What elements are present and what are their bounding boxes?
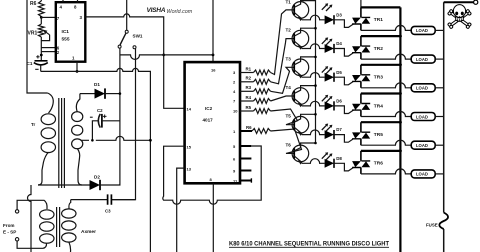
wire TR3 to load (361, 83, 411, 88)
node pin16 corner (212, 54, 215, 57)
svg-text:VR1: VR1 (28, 31, 38, 37)
wire TR2 to load (361, 54, 411, 59)
svg-text:555: 555 (62, 37, 70, 43)
wire R6 to T6 base (271, 129, 302, 153)
wire TR3 rail to bus (361, 64, 401, 66)
wire TR2 rail to bus (361, 35, 401, 37)
wire E-SP top to audio transformer (17, 200, 47, 209)
wire TR4 to load (361, 112, 411, 117)
svg-text:VISHA: VISHA (147, 7, 166, 14)
resistor R4 (254, 99, 271, 104)
mains input terminal (474, 0, 478, 4)
svg-text:TR2: TR2 (374, 46, 383, 52)
audio transformer Axmer core (57, 207, 60, 247)
svg-text:1: 1 (233, 129, 236, 134)
svg-text:LOAD: LOAD (416, 143, 428, 148)
node D1 cathode junction (119, 92, 122, 95)
wire R4 to T4 base (271, 96, 295, 101)
wire centre tap to 0V with hops (81, 136, 151, 140)
node T3 collector junction (314, 56, 317, 59)
svg-text:From: From (3, 223, 14, 228)
IC1 pin 8 stub (77, 0, 79, 2)
SW1 bottom contact (118, 45, 121, 48)
wire D4 to TR2 gate (334, 49, 353, 57)
triac TR6 (360, 151, 362, 174)
node pin1/0V rail (76, 70, 79, 73)
node junction VR1/C1/pins (40, 54, 43, 57)
wire left vertical from top to transformer (27, 0, 48, 93)
resistor R2 (254, 79, 271, 84)
IC2 unused pin stubs (240, 145, 251, 147)
svg-text:TR3: TR3 (374, 75, 383, 81)
collector supply bus (315, 0, 317, 144)
resistor R6 (555 timing) (39, 1, 45, 17)
resistor R3 (254, 89, 271, 94)
transistor T1 (292, 2, 309, 19)
Axmer primary winding (40, 210, 54, 219)
wire C3 to SW1 second contact (112, 49, 136, 200)
svg-text:D3: D3 (336, 12, 342, 17)
svg-text:14: 14 (187, 107, 192, 112)
terminal From E-SP top (15, 210, 18, 213)
svg-text:IC2: IC2 (205, 106, 213, 111)
svg-text:TR4: TR4 (374, 103, 383, 109)
svg-text:4: 4 (233, 89, 236, 94)
wire D7 to TR5 gate (334, 135, 353, 143)
svg-text:LOAD: LOAD (416, 86, 428, 91)
node clock line / SW1 line junction (162, 54, 165, 57)
svg-text:K80 6/10 CHANNEL SEQUENTIAL RU: K80 6/10 CHANNEL SEQUENTIAL RUNNING DISC… (229, 242, 389, 248)
wire IC2 output pin to R3 (240, 90, 254, 92)
triac TR3 (360, 65, 362, 88)
LED D3 (325, 15, 334, 24)
wire load 6 to right bus (435, 173, 444, 175)
node T6 collector junction (314, 142, 317, 145)
SW1 top contact (125, 30, 128, 33)
wire load 5 to right bus (435, 144, 444, 146)
capacitor C3 (71, 199, 136, 201)
svg-text:R6: R6 (246, 125, 252, 130)
wire R3 to T3 base (271, 67, 295, 93)
svg-text:T6: T6 (286, 142, 292, 147)
wire IC2 pin 13 to bottom (177, 168, 185, 252)
wire TR6 rail to bus (361, 150, 401, 152)
node T4 collector junction (314, 84, 317, 87)
svg-text:7: 7 (57, 16, 60, 21)
wire clock select with hop under C3 line (120, 55, 213, 62)
svg-text:13: 13 (187, 166, 192, 171)
VR1 wiper arrow (45, 31, 50, 35)
C2 minus tick (90, 116, 93, 118)
C2 plus sign (103, 115, 107, 119)
transformer Tr core (59, 98, 65, 188)
transistor T5 (292, 116, 309, 133)
VR1 wiper return wire (41, 35, 49, 41)
svg-text:TR1: TR1 (374, 17, 383, 23)
load box 1 (411, 26, 435, 34)
svg-text:TR6: TR6 (374, 161, 383, 167)
load box 5 (411, 141, 435, 149)
wire T5 emitter to LED (302, 130, 325, 135)
svg-text:4: 4 (60, 4, 63, 9)
wire pin2 tie (41, 51, 56, 53)
svg-text:R3: R3 (246, 85, 252, 90)
svg-text:16: 16 (211, 68, 216, 73)
wire T4 emitter to LED (302, 101, 325, 106)
svg-text:D4: D4 (336, 41, 342, 46)
transistor T4 (292, 88, 309, 105)
wire D3 to TR1 gate (334, 20, 353, 28)
LED D8 (325, 159, 334, 168)
wire IC2 output pin to R1 (240, 72, 254, 74)
diode D2 (38, 184, 90, 186)
resistor R5 (254, 109, 271, 114)
wire T1 emitter to LED (302, 15, 325, 20)
svg-text:15: 15 (187, 145, 192, 150)
wire T2 emitter to LED (302, 44, 325, 49)
wire IC2 pin 15 reset path (163, 146, 261, 204)
wire mains-neutral down with hop (28, 185, 31, 252)
svg-text:R1: R1 (246, 66, 252, 71)
load box 3 (411, 84, 435, 92)
wire T3 emitter to LED (302, 73, 325, 78)
LED D4 (325, 44, 334, 53)
svg-text:D7: D7 (336, 127, 342, 132)
resistor R6 (252, 129, 271, 134)
C1 plus sign (36, 55, 39, 58)
node rail 5 / bus junction (399, 121, 402, 124)
LED D3 arrows (322, 5, 331, 12)
svg-text:10: 10 (233, 109, 238, 114)
transistor T6 (292, 145, 309, 162)
svg-text:7: 7 (233, 99, 236, 104)
node rail 3 / bus junction (399, 63, 402, 66)
node C2/centre-tap junction (91, 139, 94, 142)
wire IC2 pin 8 to bottom (212, 183, 214, 252)
LED D7 (325, 130, 334, 139)
wire D5 to TR3 gate (334, 77, 353, 85)
svg-text:D1: D1 (94, 82, 100, 87)
wire IC2 pin16 supply from top (212, 0, 214, 55)
wire TR5 rail to bus (361, 121, 401, 123)
svg-text:E - SP: E - SP (3, 230, 16, 235)
wire R2 to T2 base (271, 39, 295, 84)
Tr primary winding (48, 93, 54, 113)
fuse (439, 213, 448, 230)
wire to mains terminal (444, 1, 474, 3)
Tr secondary winding (76, 94, 80, 112)
wire TR1 rail to bus (361, 6, 401, 8)
triac TR4 (360, 94, 362, 117)
wire load 3 to right bus (435, 87, 444, 89)
wire R5 to T5 base (271, 109, 298, 125)
wire TR5 to load (361, 140, 411, 145)
wire R6 junction to IC1 pin 7 (41, 16, 56, 18)
svg-text:8: 8 (210, 177, 213, 182)
IC2 pin 11 tick (250, 178, 252, 182)
skull and crossbones warning (447, 5, 471, 29)
svg-text:6: 6 (233, 157, 236, 162)
right mains bus with fuse gap (443, 2, 445, 252)
svg-text:T1: T1 (286, 0, 292, 4)
svg-text:8: 8 (74, 4, 77, 9)
svg-text:3: 3 (233, 70, 236, 75)
LED D5 (325, 73, 334, 82)
potentiometer VR1 (39, 24, 45, 37)
svg-text:D5: D5 (336, 70, 342, 75)
svg-text:R4: R4 (246, 95, 252, 100)
wire D6 to TR4 gate (334, 106, 353, 114)
node junction R6/pin7 (40, 16, 43, 19)
wire TR6 to load (361, 169, 411, 174)
svg-text:World.com: World.com (167, 9, 193, 15)
node T2 collector junction (314, 27, 317, 30)
svg-text:9: 9 (233, 169, 236, 174)
svg-text:T2: T2 (286, 28, 292, 33)
terminal From E-SP bottom (15, 238, 18, 241)
svg-text:IC1: IC1 (62, 29, 70, 35)
wire load 4 to right bus (435, 116, 444, 118)
C1 minus sign (35, 68, 38, 70)
svg-text:2: 2 (57, 50, 60, 55)
svg-text:C3: C3 (105, 209, 111, 214)
wire TR1 to load (361, 25, 411, 30)
LED D6 (325, 102, 334, 111)
SW1 second contact (133, 46, 136, 49)
transistor T3 (292, 59, 309, 76)
counter IC2 4017 box (185, 62, 240, 183)
node rail 2 / bus junction (399, 35, 402, 38)
wire IC2 output pin to R4 (240, 100, 254, 102)
node centre-tap/0V junction (149, 139, 152, 142)
wire IC2 output pin to R2 (240, 81, 254, 83)
wire SW1 bottom to rectifier node (119, 48, 121, 185)
svg-text:R5: R5 (246, 105, 252, 110)
load box 6 (411, 170, 435, 178)
svg-text:D6: D6 (336, 99, 342, 104)
svg-text:1: 1 (72, 56, 75, 61)
svg-text:LOAD: LOAD (416, 28, 428, 33)
svg-text:R6: R6 (30, 1, 37, 7)
wire load 2 to right bus (435, 58, 444, 60)
wire SW1 top to supply (126, 0, 128, 30)
svg-text:LOAD: LOAD (416, 172, 428, 177)
triac TR5 (360, 122, 362, 145)
capacitor C1 (35, 60, 48, 62)
LED D6 arrows (322, 96, 331, 103)
svg-text:T3: T3 (286, 56, 292, 61)
SW1 blade (120, 33, 126, 45)
wire E-SP bottom to audio transformer (17, 241, 46, 248)
svg-text:4017: 4017 (203, 118, 214, 123)
load box 2 (411, 55, 435, 63)
svg-text:2: 2 (233, 79, 236, 84)
svg-text:C1: C1 (27, 61, 33, 66)
wire load 1 to right bus (435, 29, 444, 31)
wire IC1 pin3 output with hop over SW1 wire (85, 14, 184, 108)
LED D8 arrows (322, 153, 331, 160)
load box 4 (411, 113, 435, 121)
Axmer secondary winding (62, 209, 76, 218)
triac TR1 (360, 7, 362, 30)
triac mains bus (399, 7, 401, 252)
triac TR2 (360, 36, 362, 59)
svg-text:Axmer: Axmer (81, 229, 96, 235)
IC1 pin 1 stub to 0V rail (76, 62, 78, 72)
wire T6 emitter to LED (302, 159, 325, 164)
IC1 pin 4 stub (62, 0, 64, 2)
wire 0V rail with hops (41, 68, 151, 252)
node rail 4 / bus junction (399, 92, 402, 95)
diode D1 (80, 93, 95, 95)
op-amp timer IC1 555 box (56, 2, 86, 62)
capacitor C2 (101, 114, 103, 128)
wire IC2 output pin to R5 (240, 110, 254, 112)
LED D7 arrows (322, 125, 331, 132)
wire triac bus stub above row1 (360, 0, 362, 7)
svg-text:TR5: TR5 (374, 132, 383, 138)
svg-text:D8: D8 (336, 156, 342, 161)
svg-text:R2: R2 (246, 76, 252, 81)
node T5 collector junction (314, 113, 317, 116)
svg-text:T5: T5 (286, 114, 292, 119)
IC2 pin 1 stub (240, 130, 252, 132)
LED D5 arrows (322, 67, 331, 74)
wire TR4 rail to bus (361, 92, 401, 94)
wire pin6 tie (41, 47, 56, 49)
svg-text:5: 5 (233, 144, 236, 149)
wire D8 to TR6 gate (334, 163, 353, 171)
svg-text:C2: C2 (97, 108, 103, 113)
svg-text:T4: T4 (286, 85, 292, 90)
svg-text:3: 3 (80, 15, 83, 20)
svg-text:D2: D2 (94, 175, 100, 180)
svg-text:LOAD: LOAD (416, 57, 428, 62)
wire R1 to T1 base (271, 10, 295, 75)
svg-text:FUSE: FUSE (426, 223, 438, 228)
transistor T2 (292, 30, 309, 47)
node rail 6 / bus junction (399, 149, 402, 152)
svg-text:Tr: Tr (31, 122, 35, 127)
LED D4 arrows (322, 39, 331, 46)
svg-text:SW1: SW1 (133, 34, 143, 39)
resistor R1 (254, 70, 271, 75)
svg-text:LOAD: LOAD (416, 114, 428, 119)
